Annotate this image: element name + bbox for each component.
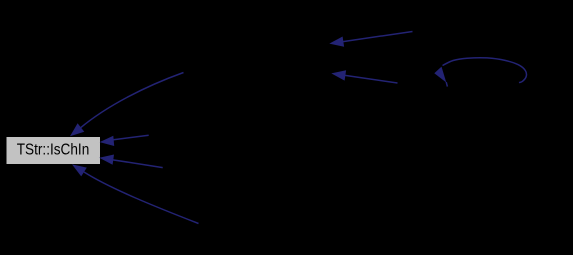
wire edge EB (caller to node right lower): [112, 160, 163, 168]
arrowhead EA: [100, 136, 115, 146]
wire edge EA (caller to node right upper): [112, 135, 148, 140]
wire edge EM1 (to hidden node M1): [342, 32, 412, 42]
wire edge Ebot (lower caller to node bottom): [84, 172, 199, 224]
svg-text:TStr::IsChIn: TStr::IsChIn: [17, 141, 90, 158]
arrowhead EM1: [329, 37, 344, 47]
wire loop start stub: [446, 82, 447, 87]
arrowhead Eloop: [434, 67, 446, 83]
arrowhead Ebot: [72, 164, 87, 176]
wire edge E1 (upper caller to node top): [79, 73, 184, 130]
wire edge Eloop (self loop): [443, 58, 527, 83]
arrowhead EM2: [331, 70, 346, 80]
arrowhead EB: [99, 155, 114, 165]
arrowhead E1: [70, 123, 84, 136]
wire edge EM2 (to hidden node M2): [344, 75, 397, 83]
node TStr::IsChIn: [7, 137, 101, 164]
